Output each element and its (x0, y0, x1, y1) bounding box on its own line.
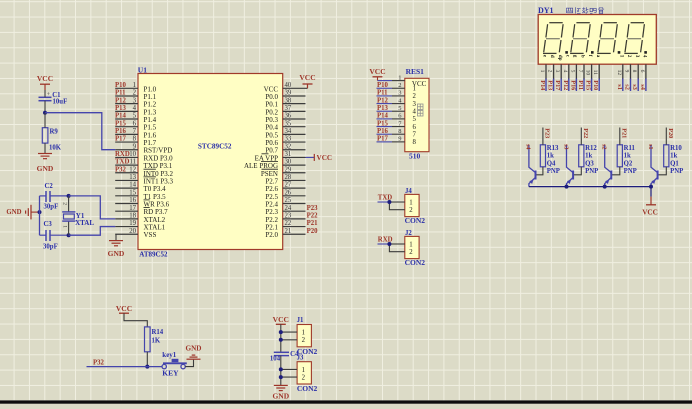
svg-text:2: 2 (547, 70, 553, 73)
svg-text:1: 1 (413, 86, 416, 93)
pin 24 P2.3 (265, 205, 318, 216)
svg-text:s2: s2 (624, 84, 631, 90)
RES1 pin 7 (377, 120, 417, 131)
svg-text:R11: R11 (624, 145, 636, 152)
svg-text:2: 2 (302, 337, 306, 344)
pin 27 P2.6 (265, 182, 305, 193)
IC U1 STC89C52 body (138, 74, 283, 250)
display pin 2 net P13 (547, 55, 556, 91)
wire R14 to junction (146, 352, 148, 367)
svg-text:P22: P22 (307, 212, 319, 219)
svg-text:PNP: PNP (624, 168, 637, 175)
svg-text:P22: P22 (582, 128, 589, 138)
resistor R11 1k (617, 128, 635, 167)
svg-text:P2.0: P2.0 (265, 231, 278, 239)
RES1 pin 8 (377, 128, 417, 139)
display pin 5 net P16 (569, 55, 578, 91)
svg-text:P21: P21 (307, 220, 319, 227)
pin 20 VSS (115, 228, 156, 239)
svg-text:VCC: VCC (37, 74, 53, 83)
svg-text:J1: J1 (297, 317, 304, 324)
svg-text:3: 3 (413, 101, 417, 108)
svg-text:1: 1 (133, 82, 136, 89)
svg-text:P17: P17 (554, 80, 561, 90)
pin 16 WR P3.6 (115, 197, 169, 208)
switch key1 KEY (162, 351, 187, 378)
svg-text:R12: R12 (585, 145, 597, 152)
resistor network RES1 body (405, 78, 429, 151)
pin 4 P1.3 (115, 105, 157, 116)
resistor R10 1k (664, 128, 683, 167)
svg-text:9: 9 (133, 143, 137, 150)
pin 32 P0.7 (265, 143, 305, 154)
svg-text:1k: 1k (547, 153, 554, 160)
svg-text:Q3: Q3 (585, 160, 594, 167)
pin 40 VCC (264, 82, 306, 93)
svg-text:RES1: RES1 (406, 67, 425, 76)
svg-text:s3: s3 (562, 144, 569, 150)
svg-text:22: 22 (285, 220, 292, 227)
svg-text:12: 12 (616, 70, 622, 76)
svg-text:Q4: Q4 (547, 160, 556, 167)
svg-text:5: 5 (413, 116, 417, 123)
svg-text:P15: P15 (585, 80, 592, 90)
pin 35 P0.4 (265, 120, 305, 131)
svg-text:35: 35 (285, 120, 292, 127)
display pin 3 net P17 (554, 55, 563, 91)
svg-text:17: 17 (129, 205, 136, 212)
svg-text:s4: s4 (639, 84, 646, 90)
svg-text:PNP: PNP (670, 168, 683, 175)
pin 23 P2.2 (265, 212, 318, 223)
power VCC at pin 40 (299, 73, 315, 88)
svg-text:3: 3 (554, 70, 560, 73)
svg-text:7: 7 (413, 132, 417, 139)
wire hook to pin2 (389, 243, 404, 245)
transistor Q4 PNP (529, 145, 560, 187)
svg-text:P12: P12 (115, 97, 127, 104)
svg-text:11: 11 (129, 159, 136, 166)
connector J1 CON2 (297, 317, 318, 356)
svg-text:P32: P32 (93, 360, 105, 367)
svg-text:P17: P17 (377, 136, 389, 143)
capacitor C2 30pF (40, 183, 69, 211)
RES1 pin 4 (377, 97, 417, 108)
wire pins to rail (281, 331, 297, 333)
pin 5 P1.4 (115, 113, 157, 124)
svg-text:VSS: VSS (144, 231, 157, 239)
svg-text:1: 1 (618, 55, 624, 58)
pin 13 INT1 P3.3 (115, 174, 173, 185)
transistor Q2 PNP (605, 145, 637, 187)
svg-text:P10: P10 (377, 82, 389, 89)
svg-text:18: 18 (129, 212, 136, 219)
display DY1 body (538, 15, 656, 65)
svg-text:33: 33 (285, 136, 292, 143)
svg-text:P16: P16 (115, 128, 127, 135)
svg-text:R14: R14 (152, 329, 164, 336)
capacitor C1 10uF (39, 90, 68, 113)
svg-text:16: 16 (129, 197, 136, 204)
svg-text:31: 31 (285, 151, 292, 158)
pin 38 P0.1 (265, 97, 305, 108)
pin 12 INT0 P3.2 (115, 166, 174, 177)
svg-text:C2: C2 (45, 183, 54, 190)
svg-text:15: 15 (129, 189, 136, 196)
net label TXD (378, 195, 393, 202)
svg-text:2: 2 (133, 90, 137, 97)
svg-text:9: 9 (624, 70, 630, 73)
display pin 9 net s2 (624, 55, 633, 91)
wire crystal left vertical (39, 196, 41, 235)
svg-text:23: 23 (285, 212, 292, 219)
RES1 pin 1 (392, 74, 405, 81)
svg-text:P13: P13 (377, 105, 389, 112)
svg-text:4: 4 (133, 105, 137, 112)
svg-text:P14: P14 (115, 113, 127, 120)
svg-text:P15: P15 (115, 120, 127, 127)
svg-text:1: 1 (539, 70, 545, 73)
svg-text:P13: P13 (547, 80, 554, 90)
svg-text:J3: J3 (297, 354, 304, 361)
capacitor C4 104 (270, 351, 299, 363)
connector J3 CON2 (297, 354, 318, 393)
svg-text:10: 10 (129, 151, 136, 158)
pin 9 RST/VPD (115, 143, 172, 154)
node key junction (145, 365, 149, 369)
node junction RXD (387, 242, 391, 246)
display pin 1 net P14 (539, 55, 548, 91)
wire crystal top to XTAL2 pin18 (69, 196, 116, 219)
svg-text:b: b (580, 55, 586, 58)
svg-text:1k: 1k (585, 153, 592, 160)
svg-text:5: 5 (398, 105, 401, 112)
svg-text:P11: P11 (115, 90, 126, 97)
node junctions (279, 367, 283, 371)
svg-text:1k: 1k (624, 153, 631, 160)
svg-text:DY1: DY1 (538, 6, 554, 15)
net label P32 wire (87, 360, 162, 367)
svg-text:P11: P11 (377, 90, 388, 97)
svg-text:1: 1 (409, 199, 412, 206)
svg-text:a: a (595, 55, 601, 58)
power VCC bottom middle (273, 315, 289, 324)
pin 34 P0.5 (265, 128, 305, 139)
ground GND below R9 (37, 154, 54, 174)
node reset junction (43, 111, 47, 115)
pin 2 P1.1 (115, 90, 157, 101)
wire crystal bottom to XTAL1 pin19 (69, 227, 116, 236)
svg-text:1: 1 (409, 241, 412, 248)
svg-text:19: 19 (129, 220, 136, 227)
svg-text:s1: s1 (647, 144, 654, 150)
svg-text:7: 7 (577, 70, 583, 73)
svg-text:29: 29 (285, 166, 292, 173)
svg-text:13: 13 (129, 174, 136, 181)
display pin 7 net P11 (577, 55, 586, 91)
svg-text:s2: s2 (601, 144, 608, 150)
wire emitter rail (529, 186, 651, 188)
digit 3 segments (597, 23, 617, 54)
svg-text:P16: P16 (569, 80, 576, 90)
svg-text:40: 40 (285, 82, 292, 89)
net label RXD (378, 237, 393, 244)
svg-text:KEY: KEY (162, 369, 179, 378)
svg-text:10K: 10K (49, 145, 62, 152)
svg-text:XTAL: XTAL (75, 219, 94, 227)
ground GND key circuit (inverted) (186, 344, 202, 359)
svg-text:P12: P12 (377, 97, 389, 104)
svg-text:7: 7 (133, 128, 137, 135)
svg-text:PNP: PNP (585, 168, 598, 175)
bottom scrollbar edge (0, 400, 692, 403)
svg-text:s1: s1 (616, 84, 623, 90)
label four-digit display title (567, 7, 605, 13)
RES1 pin 3 (377, 90, 417, 101)
pin 15 T1 P3.5 (115, 189, 166, 200)
resistor R13 1k (540, 128, 559, 167)
pin 18 XTAL2 (115, 212, 165, 223)
RES1 pin 2 (377, 82, 416, 93)
power VCC transistor rail (642, 187, 658, 217)
svg-text:d: d (549, 55, 555, 58)
transistor Q1 PNP (651, 145, 683, 187)
svg-text:1: 1 (302, 367, 305, 374)
svg-text:510: 510 (409, 152, 421, 161)
decimal points (565, 51, 647, 54)
display pin 10 net P15 (585, 55, 594, 91)
digit 4 segments (624, 23, 644, 54)
pin 1 P1.0 (115, 82, 157, 93)
svg-text:U1: U1 (138, 65, 147, 74)
svg-text:Q2: Q2 (624, 160, 633, 167)
svg-text:1: 1 (61, 225, 67, 228)
svg-text:36: 36 (285, 113, 292, 120)
svg-text:25: 25 (285, 197, 292, 204)
svg-text:CON2: CON2 (297, 384, 318, 393)
svg-text:TXD: TXD (115, 159, 129, 166)
svg-text:key1: key1 (162, 351, 177, 359)
svg-text:P23: P23 (544, 128, 551, 138)
ground GND left of crystal (6, 205, 39, 220)
svg-text:R9: R9 (50, 129, 59, 136)
svg-text:P11: P11 (577, 80, 584, 90)
resistor R12 1k (579, 128, 598, 167)
digit 2 segments (570, 23, 590, 54)
node crystal gnd junction (38, 210, 42, 214)
display pin 11 net P10 (592, 55, 601, 91)
wire reset to pin9 (45, 113, 115, 150)
crystal Y1 XTAL (61, 196, 94, 235)
svg-text:VCC: VCC (369, 67, 385, 76)
svg-text:AT89C52: AT89C52 (139, 251, 168, 259)
svg-text:VCC: VCC (642, 209, 658, 217)
pin 22 P2.1 (265, 220, 318, 231)
svg-text:C3: C3 (44, 221, 53, 228)
svg-text:P12: P12 (562, 80, 569, 90)
svg-text:J4: J4 (405, 188, 412, 195)
wire pins to rail (281, 368, 297, 370)
svg-text:4: 4 (642, 55, 648, 58)
svg-text:VCC: VCC (273, 315, 289, 324)
pin 3 P1.2 (115, 97, 157, 108)
svg-text:12: 12 (129, 166, 136, 173)
svg-text:2: 2 (61, 202, 67, 205)
pin 8 P1.7 (115, 136, 157, 147)
resistor R14 1K (145, 327, 164, 352)
svg-text:26: 26 (285, 189, 292, 196)
svg-text:21: 21 (285, 228, 292, 235)
CJK chars inside RES1 (418, 104, 424, 116)
svg-text:RXD: RXD (115, 151, 130, 158)
pin 26 P2.5 (265, 189, 305, 200)
display pin 12 net s1 (616, 55, 625, 91)
svg-text:11: 11 (592, 70, 598, 76)
svg-text:R10: R10 (670, 145, 682, 152)
svg-text:P10: P10 (592, 80, 599, 90)
pin 33 P0.6 (265, 136, 305, 147)
svg-text:1: 1 (398, 74, 401, 81)
svg-text:30pF: 30pF (43, 244, 58, 251)
svg-text:2: 2 (409, 207, 413, 214)
pin 11 TXD P3.1 (115, 159, 173, 170)
svg-text:20: 20 (129, 228, 136, 235)
svg-text:P20: P20 (307, 228, 319, 235)
svg-text:28: 28 (285, 174, 292, 181)
pin 30 ALE PROG (244, 159, 306, 170)
pin 19 XTAL1 (115, 220, 165, 231)
pin 25 P2.4 (265, 197, 305, 208)
svg-text:6: 6 (133, 120, 137, 127)
svg-text:14: 14 (129, 182, 136, 189)
svg-text:3: 3 (133, 97, 137, 104)
svg-text:37: 37 (285, 105, 292, 112)
svg-text:3: 3 (634, 55, 640, 58)
display pin 8 net s3 (631, 55, 640, 91)
svg-text:2: 2 (409, 249, 413, 256)
svg-text:30: 30 (285, 159, 292, 166)
svg-text:P15: P15 (377, 120, 389, 127)
svg-text:STC89C52: STC89C52 (198, 143, 232, 151)
svg-text:10uF: 10uF (53, 98, 68, 105)
node rail junctions (565, 185, 654, 189)
svg-text:PNP: PNP (547, 168, 560, 175)
pin 36 P0.3 (265, 113, 305, 124)
pin 29 PSEN (261, 166, 306, 177)
svg-text:P13: P13 (115, 105, 127, 112)
connector J2 CON2 (405, 230, 426, 267)
svg-text:P10: P10 (115, 82, 127, 89)
svg-text:6: 6 (413, 124, 417, 131)
svg-text:1k: 1k (670, 153, 677, 160)
svg-text:P17: P17 (115, 136, 127, 143)
svg-text:6: 6 (639, 70, 645, 73)
wire vcc to R14 (124, 313, 147, 327)
wire key to gnd (185, 360, 193, 367)
svg-text:GND: GND (272, 392, 289, 401)
svg-text:2: 2 (398, 82, 401, 89)
svg-text:P23: P23 (307, 205, 319, 212)
pin 39 P0.0 (265, 90, 305, 101)
svg-text:GND: GND (186, 344, 202, 352)
node crystal bottom (67, 233, 71, 237)
svg-text:38: 38 (285, 97, 292, 104)
svg-text:P14: P14 (377, 113, 389, 120)
svg-text:8: 8 (133, 136, 137, 143)
svg-text:CON2: CON2 (405, 216, 426, 225)
svg-text:27: 27 (285, 182, 292, 189)
svg-text:GND: GND (6, 209, 21, 216)
svg-text:39: 39 (285, 90, 292, 97)
pin 21 P2.0 (265, 228, 318, 239)
RES1 pin 6 (377, 113, 417, 124)
svg-text:2: 2 (413, 93, 417, 100)
pin 14 T0 P3.4 (115, 182, 166, 193)
svg-text:CON2: CON2 (405, 258, 426, 267)
svg-text:VCC: VCC (317, 154, 333, 162)
svg-text:P20: P20 (667, 128, 674, 138)
pin 10 RXD P3.0 (115, 151, 173, 162)
svg-text:g: g (572, 55, 578, 58)
ground GND at VSS pin20 (108, 234, 125, 258)
svg-text:8: 8 (398, 128, 401, 135)
svg-text:P32: P32 (115, 166, 127, 173)
svg-text:8: 8 (413, 139, 417, 146)
display pin 6 net s4 (639, 55, 648, 91)
RES1 pin 9 (377, 136, 417, 147)
svg-text:4: 4 (413, 109, 417, 116)
svg-text:5: 5 (133, 113, 137, 120)
svg-text:R13: R13 (547, 145, 559, 152)
wire vcc down to C4 (280, 324, 282, 352)
power VCC key circuit (116, 304, 132, 313)
node junction TXD (387, 200, 391, 204)
wire hook to pin2 (389, 201, 404, 203)
svg-text:P14: P14 (539, 80, 546, 90)
pin 7 P1.6 (115, 128, 157, 139)
svg-text:s3: s3 (631, 84, 638, 90)
RES1 pin 5 (377, 105, 417, 116)
svg-text:10: 10 (585, 70, 591, 76)
svg-text:104: 104 (270, 356, 281, 363)
ground GND bottom middle (272, 385, 289, 400)
power VCC at RES1 pin1 (369, 67, 392, 81)
wire C4 down to GND (280, 356, 282, 385)
svg-text:+: + (47, 91, 51, 98)
digit 1 segments (543, 23, 563, 54)
transistor Q3 PNP (567, 145, 599, 187)
svg-text:f: f (587, 55, 593, 57)
svg-text:24: 24 (285, 205, 292, 212)
svg-text:1K: 1K (152, 338, 161, 345)
pin 31 EA VPP (255, 151, 306, 162)
svg-text:Q1: Q1 (670, 160, 679, 167)
svg-text:VCC: VCC (116, 304, 132, 313)
resistor R9 10K (42, 113, 61, 153)
svg-text:1: 1 (302, 330, 305, 337)
pin 28 P2.7 (265, 174, 305, 185)
svg-text:8: 8 (631, 70, 637, 73)
svg-text:GND: GND (37, 164, 54, 173)
svg-text:2: 2 (626, 55, 632, 58)
svg-text:s4: s4 (525, 144, 532, 150)
capacitor C3 30pF (40, 221, 69, 251)
svg-text:2: 2 (302, 375, 306, 382)
svg-text:P16: P16 (377, 128, 389, 135)
pin 6 P1.5 (115, 120, 157, 131)
power label VCC at pin 31 (306, 154, 333, 162)
pin 17 RD P3.7 (115, 205, 168, 216)
